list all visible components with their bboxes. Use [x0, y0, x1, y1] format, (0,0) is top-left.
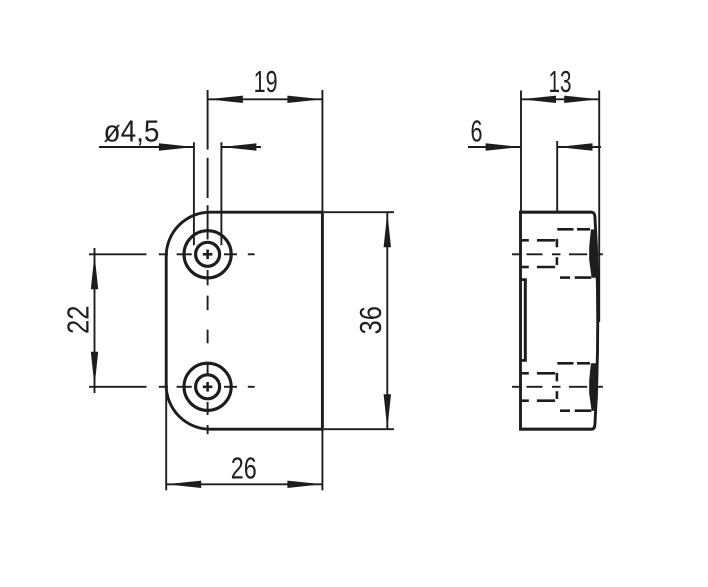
svg-text:ø4,5: ø4,5 — [104, 114, 160, 148]
svg-text:22: 22 — [62, 305, 96, 334]
svg-text:6: 6 — [471, 115, 483, 149]
svg-text:36: 36 — [354, 306, 388, 335]
svg-text:26: 26 — [231, 452, 257, 486]
svg-text:19: 19 — [254, 65, 278, 99]
svg-text:13: 13 — [549, 65, 572, 99]
